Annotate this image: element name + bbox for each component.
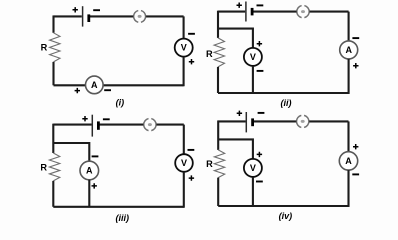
- svg-text:V: V: [181, 43, 187, 53]
- svg-text:V: V: [250, 52, 256, 62]
- svg-text:R: R: [40, 163, 47, 173]
- svg-text:A: A: [86, 165, 93, 175]
- svg-text:R: R: [41, 42, 48, 52]
- svg-text:(iv): (iv): [279, 211, 293, 221]
- svg-text:V: V: [250, 163, 256, 173]
- svg-text:(ii): (ii): [281, 98, 292, 108]
- svg-text:(iii): (iii): [116, 213, 130, 223]
- svg-text:V: V: [181, 158, 187, 168]
- svg-text:A: A: [345, 156, 352, 166]
- svg-text:R: R: [206, 159, 213, 169]
- svg-text:(i): (i): [116, 98, 125, 108]
- svg-text:A: A: [91, 80, 98, 90]
- svg-text:R: R: [206, 49, 213, 59]
- svg-text:A: A: [345, 45, 352, 55]
